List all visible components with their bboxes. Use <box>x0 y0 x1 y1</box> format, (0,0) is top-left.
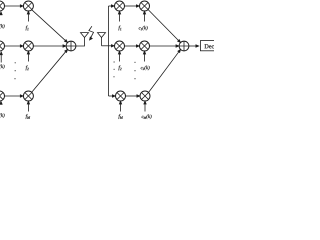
arrow f2 into Y2a <box>118 51 121 62</box>
arrow c2 into Y2b <box>143 51 146 62</box>
label cM(k) <box>142 115 152 120</box>
multiplier Y1b <box>140 1 150 11</box>
label fM right <box>118 114 122 119</box>
wire XMa to XMb <box>4 95 23 98</box>
label (k) branch2 <box>0 65 5 70</box>
arrow f1 into Y1a <box>118 11 121 22</box>
wire Y1a to Y1b <box>125 5 140 8</box>
wire YMa to YMb <box>126 95 141 98</box>
multiplier X2b <box>23 41 33 51</box>
label c2(k) <box>141 66 150 71</box>
arrow f2 into X2b <box>27 51 30 62</box>
receiver feed line <box>108 6 110 96</box>
arrow fM into YMa <box>119 101 122 112</box>
multiplier YMb <box>140 91 150 101</box>
wire Y2a to Y2b <box>125 45 140 48</box>
wire XMb to summer SL <box>31 49 67 92</box>
decision box <box>200 41 220 51</box>
label f2 left <box>26 65 29 70</box>
arrow c1 into Y1b <box>143 11 146 22</box>
wire feed to YMa <box>109 95 116 98</box>
label c1(k) <box>139 26 148 31</box>
label (k) branchM <box>0 113 5 118</box>
wire feed to Y1a <box>109 5 115 8</box>
wire X2b to summer SL <box>33 45 66 48</box>
arrow into XMa <box>0 101 2 105</box>
multiplier XMa <box>0 91 5 101</box>
multiplier XMb <box>23 91 33 101</box>
wire X1b to summer SL <box>31 9 67 42</box>
wire Y1b to summer SR <box>148 9 181 42</box>
arrow fM into XMb <box>27 101 30 112</box>
TX antenna <box>81 33 89 38</box>
arrow into X1a <box>0 12 2 16</box>
label (k) branch1 <box>0 24 5 29</box>
multiplier X1b <box>23 1 33 11</box>
RX antenna <box>98 33 106 46</box>
ellipsis right col2 <box>134 62 135 80</box>
multiplier Y2b <box>140 41 150 51</box>
multiplier X2a <box>0 41 5 51</box>
wire X2a to X2b <box>4 45 23 48</box>
label fM left <box>26 114 30 119</box>
multiplier YMa <box>116 91 126 101</box>
wire Y2b to summer SR <box>150 45 180 48</box>
arrow f1 into X1b <box>27 11 30 22</box>
wire X1a to X1b <box>4 5 23 8</box>
summer SR <box>179 41 189 51</box>
channel lightning <box>89 26 94 40</box>
wire SL to TX antenna <box>76 38 85 46</box>
label f2 right <box>118 65 121 70</box>
wire SR to decision box <box>189 45 199 48</box>
multiplier Y1a <box>115 1 125 11</box>
label Decision <box>204 44 226 48</box>
arrow cM into YMb <box>144 101 147 112</box>
ellipsis right col1 <box>113 61 114 77</box>
summer SL <box>66 41 76 51</box>
multiplier X1a <box>0 1 5 11</box>
wire YMb to summer SR <box>148 49 180 92</box>
multiplier Y2a <box>115 41 125 51</box>
ellipsis left <box>14 62 15 79</box>
label f1 left <box>26 26 29 31</box>
arrow into X2a <box>0 52 2 63</box>
label f1 right <box>118 26 121 31</box>
wire RX antenna to Y2a <box>102 45 115 48</box>
